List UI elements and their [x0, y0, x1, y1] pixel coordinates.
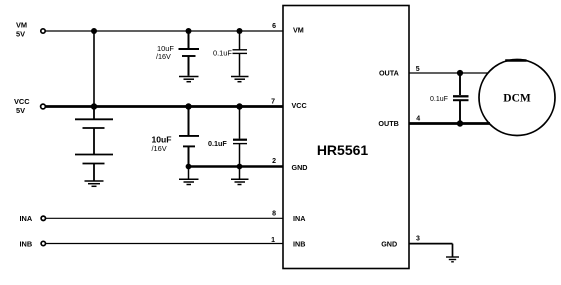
svg-text:GND: GND [292, 163, 308, 172]
svg-text:VCC: VCC [14, 97, 30, 106]
svg-text:DCM: DCM [503, 93, 531, 105]
wire GND pin3 horizontal [409, 243, 453, 245]
svg-text:1: 1 [271, 237, 275, 244]
terminal VM [41, 29, 45, 33]
svg-text:VM: VM [293, 26, 304, 35]
svg-text:/16V: /16V [156, 52, 171, 61]
capacitor C3 10uF/16V [179, 107, 199, 167]
ground C4 [231, 179, 249, 184]
svg-text:HR5561: HR5561 [317, 142, 369, 158]
svg-text:4: 4 [416, 116, 420, 123]
node junction OUTB/C5 [457, 120, 463, 126]
wire VM rail [46, 30, 284, 32]
capacitor C1 10uF/16V [179, 31, 200, 76]
node junction GND/C4 [237, 164, 243, 170]
svg-text:10uF: 10uF [152, 134, 172, 144]
svg-text:/16V: /16V [152, 144, 167, 153]
svg-text:GND: GND [381, 240, 397, 249]
wire GND pin3 vertical [452, 244, 454, 257]
battery B1 [75, 107, 113, 181]
motor top bar [505, 59, 526, 62]
svg-text:INA: INA [293, 214, 305, 223]
motor M1 DCM [479, 60, 555, 136]
node junction OUTA/C5 [457, 70, 463, 76]
wire OUTB [409, 122, 490, 125]
ground C2 [231, 77, 249, 82]
svg-text:OUTB: OUTB [378, 119, 398, 128]
terminal INA [41, 216, 45, 220]
capacitor C2 0.1uF [233, 31, 248, 76]
wire INA [46, 217, 283, 219]
terminal INB [41, 241, 45, 245]
svg-text:2: 2 [272, 158, 276, 165]
svg-text:INB: INB [293, 239, 305, 248]
wire GND pin2 [189, 165, 284, 168]
svg-text:5: 5 [416, 66, 420, 73]
node junction VM/C2 [237, 28, 243, 34]
capacitor C5 0.1uF [453, 73, 469, 124]
wire stub ground C3 [188, 167, 190, 179]
wire stub ground C4 [239, 167, 241, 179]
svg-text:VM: VM [16, 21, 27, 30]
svg-text:INA: INA [20, 214, 33, 223]
wire VCC rail [46, 105, 283, 108]
ground C1 [179, 77, 199, 82]
wire INB [46, 243, 283, 245]
node junction VCC/battery [91, 103, 97, 109]
node junction GND/C3 [186, 164, 192, 170]
terminal VCC [41, 104, 46, 109]
svg-text:0.1uF: 0.1uF [213, 49, 232, 58]
node junction VCC/C3 [185, 103, 191, 109]
node junction VM/battery [91, 28, 97, 34]
svg-text:6: 6 [272, 23, 276, 30]
svg-text:VCC: VCC [292, 101, 307, 110]
svg-text:0.1uF: 0.1uF [430, 96, 448, 103]
wire VM-to-VCC vertical [93, 31, 95, 107]
ground battery [85, 181, 104, 186]
svg-text:5V: 5V [16, 30, 25, 39]
capacitor C4 0.1uF [233, 107, 247, 167]
svg-text:8: 8 [272, 211, 276, 218]
svg-text:5V: 5V [16, 106, 25, 115]
ground C3 [179, 179, 199, 184]
wire OUTA [409, 72, 489, 74]
svg-text:OUTA: OUTA [379, 69, 399, 78]
svg-text:0.1uF: 0.1uF [208, 139, 227, 148]
svg-text:INB: INB [20, 239, 33, 248]
node junction VCC/C4 [236, 103, 242, 109]
ground right [446, 257, 459, 262]
op-amp U1 HR5561 IC body [283, 6, 409, 269]
svg-text:3: 3 [416, 236, 420, 243]
node junction VM/C1 [186, 28, 192, 34]
svg-text:7: 7 [271, 99, 275, 106]
